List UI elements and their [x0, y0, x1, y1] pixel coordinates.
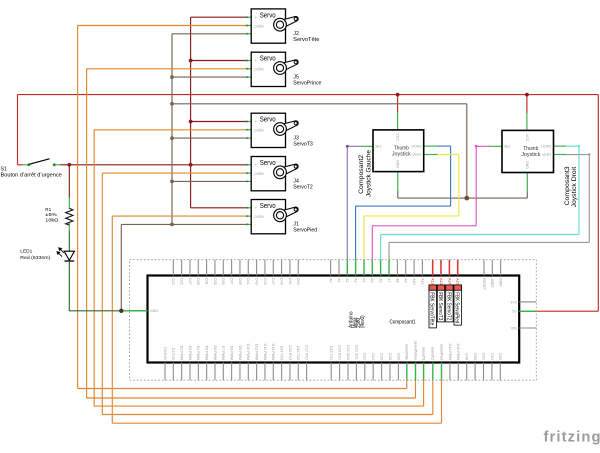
svg-text:pulse: pulse	[254, 67, 264, 72]
svg-text:D47: D47	[271, 278, 275, 285]
svg-text:D39: D39	[238, 278, 242, 285]
svg-text:GND: GND	[525, 161, 529, 169]
svg-text:D28: D28	[388, 353, 392, 360]
svg-text:A2: A2	[345, 278, 349, 282]
svg-text:D12 PWM: D12 PWM	[263, 344, 267, 360]
svg-text:AREF: AREF	[490, 278, 494, 288]
svg-text:D50: D50	[473, 353, 477, 360]
svg-text:D13 PWM: D13 PWM	[271, 344, 275, 360]
svg-text:VERT: VERT	[412, 153, 422, 157]
svg-text:servoT2: servoT2	[431, 347, 435, 360]
svg-text:A9: A9	[404, 278, 408, 282]
svg-text:D27: D27	[188, 278, 192, 285]
svg-text:D51: D51	[288, 278, 292, 285]
svg-text:Servo: Servo	[260, 158, 276, 167]
svg-text:pulse: pulse	[254, 128, 264, 133]
svg-text:Red (633nm): Red (633nm)	[20, 255, 50, 261]
svg-text:ServoTête: ServoTête	[293, 37, 319, 43]
svg-text:D53: D53	[296, 278, 300, 285]
svg-text:D14 TX3: D14 TX3	[280, 346, 284, 360]
svg-text:D8 PWM: D8 PWM	[230, 346, 234, 360]
svg-text:D17 RX2: D17 RX2	[305, 345, 309, 360]
svg-text:pulse: pulse	[254, 171, 264, 176]
svg-text:ServoT2: ServoT2	[293, 185, 313, 191]
svg-text:A3: A3	[354, 278, 358, 282]
svg-text:A10: A10	[412, 278, 416, 284]
svg-text:D5 PWM: D5 PWM	[205, 346, 209, 360]
svg-text:D48: D48	[465, 353, 469, 360]
svg-text:D11 PWM: D11 PWM	[255, 344, 259, 360]
svg-text:D35: D35	[221, 278, 225, 285]
svg-text:HORZ: HORZ	[412, 145, 423, 149]
svg-text:D24: D24	[371, 353, 375, 360]
svg-text:R1: R1	[45, 207, 51, 212]
svg-text:A7: A7	[387, 278, 391, 282]
svg-text:FBK ServoTête: FBK ServoTête	[429, 292, 435, 325]
svg-text:D18 TX1: D18 TX1	[329, 346, 333, 360]
svg-text:Servo: Servo	[260, 10, 276, 19]
svg-text:D29: D29	[196, 278, 200, 285]
svg-text:servoTête: servoTête	[405, 344, 409, 360]
svg-text:D10 PWM: D10 PWM	[246, 344, 250, 360]
svg-text:A5: A5	[370, 278, 374, 282]
svg-text:D21 SCL: D21 SCL	[354, 345, 358, 360]
svg-text:D22: D22	[363, 353, 367, 360]
svg-text:FBK ServoPied: FBK ServoPied	[454, 292, 460, 323]
svg-text:Servo: Servo	[260, 201, 276, 210]
svg-text:GND: GND	[150, 309, 158, 313]
svg-text:D31: D31	[205, 278, 209, 285]
svg-text:D16 TX2: D16 TX2	[296, 346, 300, 360]
svg-text:A0: A0	[329, 278, 333, 282]
svg-text:pulse: pulse	[254, 214, 264, 219]
svg-text:servoT3: servoT3	[422, 347, 426, 360]
svg-text:fritzing: fritzing	[544, 430, 600, 446]
svg-text:Composant3: Composant3	[565, 166, 571, 206]
svg-text:D3 PWM: D3 PWM	[188, 346, 192, 360]
svg-text:D26: D26	[380, 353, 384, 360]
svg-text:IORF: IORF	[499, 278, 503, 287]
svg-text:D19 RX1: D19 RX1	[338, 345, 342, 360]
svg-text:D9 PWM: D9 PWM	[238, 346, 242, 360]
svg-text:Thumb: Thumb	[523, 146, 538, 152]
svg-text:Servo: Servo	[260, 54, 276, 63]
svg-text:(Rev3): (Rev3)	[360, 315, 366, 328]
svg-text:Composant2: Composant2	[359, 154, 365, 194]
svg-text:ServoT3: ServoT3	[293, 141, 313, 147]
svg-text:D43: D43	[255, 278, 259, 285]
svg-text:3V3: 3V3	[510, 300, 516, 304]
svg-text:D45: D45	[263, 278, 267, 285]
svg-text:A12: A12	[431, 278, 435, 284]
svg-text:D49: D49	[279, 278, 283, 285]
svg-text:VIN: VIN	[511, 326, 517, 330]
svg-text:D7 PWM: D7 PWM	[221, 346, 225, 360]
svg-text:SEL: SEL	[375, 145, 382, 149]
svg-text:5V: 5V	[512, 310, 517, 314]
svg-text:D2 PWM: D2 PWM	[180, 346, 184, 360]
svg-text:Bouton d’arrêt d’urgence: Bouton d’arrêt d’urgence	[1, 172, 62, 178]
svg-text:A13: A13	[439, 278, 443, 284]
svg-text:D33: D33	[213, 278, 217, 285]
svg-text:RESET: RESET	[482, 278, 486, 291]
svg-text:Servo: Servo	[260, 115, 276, 124]
svg-text:Composant1: Composant1	[390, 319, 416, 325]
svg-text:A14: A14	[447, 278, 451, 284]
svg-text:GND: GND	[396, 160, 400, 168]
svg-text:servoPied: servoPied	[439, 344, 443, 360]
svg-text:D1/TX0: D1/TX0	[171, 348, 175, 360]
svg-text:D15 RX3: D15 RX3	[288, 345, 292, 360]
svg-text:Thumb: Thumb	[394, 145, 409, 151]
svg-text:D56: D56	[498, 353, 502, 360]
svg-text:D30: D30	[396, 353, 400, 360]
svg-text:D44 PWM: D44 PWM	[448, 344, 452, 360]
svg-text:ServoPrince: ServoPrince	[293, 80, 321, 86]
svg-text:Joystick Gauche: Joystick Gauche	[367, 149, 373, 197]
svg-text:D52: D52	[481, 353, 485, 360]
svg-text:VCC: VCC	[396, 133, 400, 141]
svg-text:D0/RX0: D0/RX0	[163, 347, 167, 360]
svg-text:FBK ServoT3: FBK ServoT3	[437, 292, 443, 320]
svg-text:D54: D54	[490, 353, 494, 360]
svg-text:Joystick Droit: Joystick Droit	[572, 167, 578, 208]
svg-text:A8: A8	[395, 278, 399, 282]
svg-text:±5%: ±5%	[45, 212, 57, 217]
svg-text:D4 PWM: D4 PWM	[196, 346, 200, 360]
svg-text:A6: A6	[379, 278, 383, 282]
svg-text:Joystick: Joystick	[392, 151, 411, 157]
svg-text:A4: A4	[362, 278, 366, 282]
svg-text:10kΩ: 10kΩ	[45, 218, 59, 223]
svg-text:Joystick: Joystick	[521, 152, 540, 158]
svg-text:A11: A11	[420, 278, 424, 284]
svg-text:D25: D25	[180, 278, 184, 285]
svg-text:pulse: pulse	[254, 23, 264, 28]
svg-text:A15: A15	[456, 278, 460, 284]
svg-text:ServoPied: ServoPied	[293, 228, 317, 234]
svg-text:VERT: VERT	[542, 153, 552, 157]
svg-text:D37: D37	[230, 278, 234, 285]
svg-text:VCC: VCC	[525, 134, 529, 142]
svg-text:FBK ServoT2: FBK ServoT2	[445, 292, 451, 320]
svg-text:D23: D23	[171, 278, 175, 285]
svg-text:D41: D41	[246, 278, 250, 285]
svg-text:HORZ: HORZ	[541, 145, 552, 149]
svg-text:SEL: SEL	[504, 145, 511, 149]
svg-text:D46 PWM: D46 PWM	[456, 344, 460, 360]
svg-text:A1: A1	[337, 278, 341, 282]
svg-text:LED1: LED1	[20, 248, 32, 254]
svg-text:servoPrince: servoPrince	[413, 341, 417, 360]
svg-text:D6 PWM: D6 PWM	[213, 346, 217, 360]
svg-text:D20 SDA: D20 SDA	[346, 345, 350, 361]
